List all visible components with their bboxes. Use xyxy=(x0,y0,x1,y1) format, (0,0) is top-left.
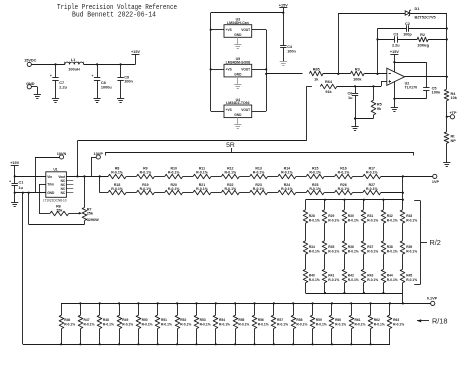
resistor R64 xyxy=(320,84,337,89)
svg-text:R-0.1%: R-0.1% xyxy=(393,322,404,326)
resistor R62 xyxy=(370,303,372,315)
svg-text:R-0.1%: R-0.1% xyxy=(140,187,153,191)
wire xyxy=(211,111,224,113)
wire xyxy=(239,192,249,194)
svg-text:R-0.1%: R-0.1% xyxy=(328,278,339,282)
resistor R37 xyxy=(361,241,366,254)
wire vout bus xyxy=(66,176,108,178)
capacitor C6 xyxy=(355,86,357,93)
resistor R22 xyxy=(221,190,239,195)
capacitor C1 xyxy=(14,176,16,183)
svg-text:1u: 1u xyxy=(19,186,24,190)
resistor R14 xyxy=(278,174,296,179)
svg-text:75k: 75k xyxy=(56,209,63,213)
svg-text:Bud Bennett 2022-06-14: Bud Bennett 2022-06-14 xyxy=(72,11,156,19)
resistor R34 xyxy=(303,241,308,254)
svg-text:LM34DH-Can: LM34DH-Can xyxy=(227,21,249,25)
resistor R26 xyxy=(335,190,353,195)
svg-text:100k: 100k xyxy=(353,78,362,82)
wire xyxy=(394,98,426,100)
svg-text:R-0.1%: R-0.1% xyxy=(281,171,294,175)
svg-text:R-0.1%: R-0.1% xyxy=(309,278,320,282)
wire xyxy=(31,64,65,66)
ground xyxy=(443,162,450,164)
op-amp U2 xyxy=(387,68,405,85)
ground xyxy=(237,77,239,84)
resistor R45 xyxy=(400,269,405,282)
wire xyxy=(183,192,193,194)
wire xyxy=(383,223,385,241)
wire xyxy=(383,283,385,293)
svg-text:100n: 100n xyxy=(287,50,296,54)
svg-text:+TP: +TP xyxy=(449,111,457,115)
ground xyxy=(11,202,18,204)
wire xyxy=(363,200,365,210)
wire xyxy=(324,283,326,293)
wire xyxy=(252,69,267,71)
svg-text:R2: R2 xyxy=(420,33,425,37)
resistor R21 xyxy=(193,190,211,195)
svg-text:R-0.1%: R-0.1% xyxy=(224,187,237,191)
wire xyxy=(353,192,363,194)
wire xyxy=(324,254,326,269)
resistor R55 xyxy=(235,303,237,315)
wire xyxy=(126,176,136,178)
resistor R23 xyxy=(250,190,268,195)
wire xyxy=(383,200,385,210)
svg-text:R-0.1%: R-0.1% xyxy=(122,322,133,326)
wire xyxy=(381,192,403,194)
svg-text:GND: GND xyxy=(234,73,242,77)
resistor R56 xyxy=(254,303,256,315)
svg-text:25k: 25k xyxy=(87,212,94,216)
wire xyxy=(211,176,221,178)
wire xyxy=(337,86,381,88)
wire xyxy=(446,143,448,162)
wire xyxy=(268,176,278,178)
voltage reference U3 xyxy=(224,25,252,38)
svg-text:BZT52C7V5: BZT52C7V5 xyxy=(415,15,436,19)
wire xyxy=(84,64,136,66)
svg-text:R-0.1%: R-0.1% xyxy=(200,322,211,326)
resistor R53 xyxy=(196,303,198,315)
svg-text:2.2u: 2.2u xyxy=(392,43,400,47)
svg-text:R-0.1%: R-0.1% xyxy=(366,171,379,175)
resistor R20 xyxy=(165,190,183,195)
resistor R10 xyxy=(165,174,183,179)
resistor R43 xyxy=(361,269,366,282)
svg-text:R-0.1%: R-0.1% xyxy=(103,322,114,326)
svg-text:R-0.1%: R-0.1% xyxy=(367,278,378,282)
wire xyxy=(338,13,405,15)
wire xyxy=(383,254,385,269)
svg-text:LM34DM-SO08: LM34DM-SO08 xyxy=(226,61,251,65)
resistor R3 xyxy=(351,71,365,76)
svg-text:+15V: +15V xyxy=(279,3,288,7)
port 1VP xyxy=(403,176,433,178)
svg-text:C3: C3 xyxy=(393,33,398,37)
wire xyxy=(402,223,404,241)
svg-text:+: + xyxy=(92,74,94,78)
wire xyxy=(377,29,379,74)
zener diode D1 xyxy=(405,11,409,15)
wire xyxy=(296,192,306,194)
resistor R42 xyxy=(342,269,347,282)
svg-text:R65: R65 xyxy=(313,67,320,71)
wire xyxy=(305,283,307,293)
wire xyxy=(363,254,365,269)
svg-text:R-0.1%: R-0.1% xyxy=(309,218,320,222)
resistor R51 xyxy=(157,303,159,315)
svg-text:R-0.1%: R-0.1% xyxy=(406,218,417,222)
resistor R49 xyxy=(119,303,121,315)
resistor R28 xyxy=(303,210,308,223)
wire xyxy=(296,176,306,178)
wire trim xyxy=(39,184,46,186)
svg-text:R/2: R/2 xyxy=(430,238,441,247)
svg-text:R/18: R/18 xyxy=(432,316,447,325)
svg-text:R-0.1%: R-0.1% xyxy=(296,322,307,326)
svg-text:R64: R64 xyxy=(325,80,333,84)
svg-text:R-0.1%: R-0.1% xyxy=(387,218,398,222)
wire xyxy=(266,73,302,75)
resistor R63 xyxy=(389,303,391,315)
wire xyxy=(394,81,396,107)
svg-text:R-0.1%: R-0.1% xyxy=(253,187,266,191)
svg-text:Trim: Trim xyxy=(47,182,54,186)
svg-text:GND: GND xyxy=(47,191,55,195)
resistor R15 xyxy=(306,174,324,179)
ground xyxy=(351,126,358,128)
resistor R58 xyxy=(293,303,295,315)
svg-text:R-0.1%: R-0.1% xyxy=(111,171,124,175)
resistor R24 xyxy=(278,190,296,195)
svg-text:+VS: +VS xyxy=(226,68,232,72)
wire out xyxy=(405,76,447,78)
svg-text:100n: 100n xyxy=(432,91,441,95)
resistor Rt xyxy=(444,132,449,143)
svg-text:LT1021DCN8-10: LT1021DCN8-10 xyxy=(43,198,67,202)
svg-text:100uH: 100uH xyxy=(68,67,80,71)
resistor R11 xyxy=(193,174,211,179)
ground xyxy=(237,37,239,45)
resistor R6 xyxy=(50,211,69,216)
wire xyxy=(402,293,404,303)
resistor R12 xyxy=(221,174,239,179)
svg-text:Vin: Vin xyxy=(47,175,52,179)
resistor R13 xyxy=(250,174,268,179)
svg-text:R-0.1%: R-0.1% xyxy=(328,249,339,253)
svg-text:C1: C1 xyxy=(19,180,24,184)
svg-text:0.1VP: 0.1VP xyxy=(427,296,438,300)
svg-text:R-0.1%: R-0.1% xyxy=(219,322,230,326)
ground xyxy=(117,98,124,100)
label R/18 xyxy=(417,320,429,322)
wire gnd rail xyxy=(15,192,46,194)
svg-text:R-0.1%: R-0.1% xyxy=(140,171,153,175)
port +TP xyxy=(446,116,448,118)
svg-text:+15V: +15V xyxy=(131,50,140,54)
wire xyxy=(69,213,80,215)
svg-text:R-0.1%: R-0.1% xyxy=(309,187,322,191)
ground xyxy=(94,98,101,100)
wire xyxy=(154,192,164,194)
resistor R59 xyxy=(312,303,314,315)
wire xyxy=(266,30,268,111)
resistor R8 xyxy=(108,174,126,179)
svg-text:R-0.1%: R-0.1% xyxy=(196,187,209,191)
wire xyxy=(211,192,221,194)
svg-text:10Meg: 10Meg xyxy=(417,43,429,47)
resistor R19 xyxy=(136,190,154,195)
resistor R18 xyxy=(108,190,126,195)
resistor R5 xyxy=(373,86,375,100)
wire xyxy=(363,283,365,293)
resistor R2 xyxy=(417,37,428,42)
wire xyxy=(344,200,346,210)
wire xyxy=(363,223,365,241)
voltage reference U4 xyxy=(224,105,252,118)
svg-text:R-0.1%: R-0.1% xyxy=(224,171,237,175)
resistor R52 xyxy=(177,303,179,315)
power +15V xyxy=(135,54,137,64)
svg-text:R-0.1%: R-0.1% xyxy=(168,171,181,175)
wire left rail xyxy=(22,193,24,345)
wire xyxy=(324,176,334,178)
wire xyxy=(402,283,404,293)
svg-text:C2: C2 xyxy=(405,22,410,26)
wire xyxy=(446,13,448,89)
wire xyxy=(183,176,193,178)
svg-text:+15V: +15V xyxy=(10,161,19,165)
resistor R48 xyxy=(99,303,101,315)
svg-text:R-0.1%: R-0.1% xyxy=(406,278,417,282)
svg-text:91k: 91k xyxy=(325,90,332,94)
resistor R4 xyxy=(444,89,449,100)
svg-text:LM34DZ-TO92: LM34DZ-TO92 xyxy=(226,101,250,105)
wire +15V rail xyxy=(211,12,284,14)
svg-text:R-0.1%: R-0.1% xyxy=(374,322,385,326)
wire xyxy=(15,176,46,178)
svg-text:1u: 1u xyxy=(348,96,353,100)
wire xyxy=(239,176,249,178)
wire xyxy=(410,13,447,15)
wire xyxy=(324,200,326,210)
svg-text:R-0.1%: R-0.1% xyxy=(238,322,249,326)
resistor R17 xyxy=(363,174,381,179)
svg-text:R-0.1%: R-0.1% xyxy=(406,249,417,253)
capacitor C5 xyxy=(426,62,428,88)
wire xyxy=(446,101,448,132)
svg-text:R-0.1%: R-0.1% xyxy=(142,322,153,326)
resistor R36 xyxy=(342,241,347,254)
svg-text:VOUT: VOUT xyxy=(241,28,250,32)
ground xyxy=(52,98,59,100)
svg-text:R-0.1%: R-0.1% xyxy=(277,322,288,326)
wire xyxy=(397,39,417,41)
svg-text:R-0.1%: R-0.1% xyxy=(335,322,346,326)
svg-text:R-0.1%: R-0.1% xyxy=(367,249,378,253)
svg-text:R-0.1%: R-0.1% xyxy=(168,187,181,191)
svg-text:+: + xyxy=(50,74,52,78)
svg-text:15VDC: 15VDC xyxy=(24,58,36,62)
svg-text:R-0.1%: R-0.1% xyxy=(309,171,322,175)
svg-text:5R: 5R xyxy=(226,142,235,149)
wire xyxy=(381,176,403,178)
resistor R9 xyxy=(136,174,154,179)
resistor R57 xyxy=(273,303,275,315)
resistor R47 xyxy=(80,303,82,315)
svg-text:R-0.1%: R-0.1% xyxy=(367,218,378,222)
svg-text:3296W: 3296W xyxy=(87,218,99,222)
svg-text:R-0.1%: R-0.1% xyxy=(196,171,209,175)
node gnd xyxy=(14,192,16,194)
ground xyxy=(391,107,398,109)
resistor R30 xyxy=(342,210,347,223)
ground xyxy=(237,118,239,125)
resistor R35 xyxy=(322,241,327,254)
wire xyxy=(211,69,224,71)
svg-text:R-0.1%: R-0.1% xyxy=(348,218,359,222)
port 0.1VP xyxy=(403,303,431,305)
wire xyxy=(324,223,326,241)
resistor R44 xyxy=(381,269,386,282)
resistor R60 xyxy=(331,303,333,315)
svg-text:R-0.1%: R-0.1% xyxy=(348,278,359,282)
wire xyxy=(428,39,447,41)
svg-text:NC: NC xyxy=(61,191,66,195)
svg-text:1000u: 1000u xyxy=(101,85,112,89)
wire pot return xyxy=(29,224,85,226)
resistor R61 xyxy=(351,303,353,315)
svg-text:R-0.1%: R-0.1% xyxy=(111,187,124,191)
resistor R31 xyxy=(361,210,366,223)
svg-text:VOUT: VOUT xyxy=(241,68,250,72)
svg-text:+VS: +VS xyxy=(226,108,232,112)
resistor R41 xyxy=(322,269,327,282)
resistor R46 xyxy=(61,303,63,315)
svg-text:R-0.1%: R-0.1% xyxy=(161,322,172,326)
svg-text:L1: L1 xyxy=(71,58,75,62)
wire sense xyxy=(77,141,79,177)
ground xyxy=(34,94,41,96)
wire xyxy=(338,13,340,74)
wire xyxy=(353,176,363,178)
svg-text:R-0.1%: R-0.1% xyxy=(354,322,365,326)
voltage reference U1 xyxy=(46,172,67,198)
node 1VP xyxy=(402,175,404,177)
svg-text:100p: 100p xyxy=(403,32,412,36)
svg-text:+VS: +VS xyxy=(226,28,232,32)
svg-text:R-0.1%: R-0.1% xyxy=(366,187,379,191)
wire xyxy=(402,200,404,210)
svg-text:10k: 10k xyxy=(451,96,458,100)
inductor L1 xyxy=(65,62,84,64)
svg-text:R-0.1%: R-0.1% xyxy=(84,322,95,326)
wire xyxy=(154,176,164,178)
wire R/18 bottom rail xyxy=(23,344,390,346)
resistor R33 xyxy=(400,210,405,223)
resistor R25 xyxy=(306,190,324,195)
wire xyxy=(402,176,404,199)
ground xyxy=(280,61,287,63)
wire xyxy=(402,254,404,269)
resistor R27 xyxy=(363,190,381,195)
resistor R29 xyxy=(322,210,327,223)
wire xyxy=(305,200,307,210)
node xyxy=(354,117,356,119)
wire xyxy=(344,223,346,241)
wire xyxy=(211,29,224,31)
svg-text:R-0.1%: R-0.1% xyxy=(338,187,351,191)
capacitor C3 xyxy=(378,39,395,41)
svg-text:R-0.1%: R-0.1% xyxy=(180,322,191,326)
wire xyxy=(252,29,267,31)
wire xyxy=(394,62,426,64)
resistor R65 xyxy=(309,71,323,76)
svg-text:R-0.1%: R-0.1% xyxy=(338,171,351,175)
svg-text:NP: NP xyxy=(451,139,457,143)
wire xyxy=(323,73,351,75)
wire xyxy=(268,192,278,194)
node VSUM xyxy=(265,73,267,75)
svg-text:R-0.1%: R-0.1% xyxy=(387,249,398,253)
svg-text:2.2u: 2.2u xyxy=(59,85,67,89)
capacitor C4 xyxy=(283,13,285,46)
wire xyxy=(305,254,307,269)
bracket R/2 xyxy=(420,201,422,284)
capacitor C2 xyxy=(378,28,407,30)
resistor R16 xyxy=(335,174,353,179)
potentiometer R7 xyxy=(84,176,86,207)
svg-text:R3: R3 xyxy=(355,67,360,71)
resistor R40 xyxy=(303,269,308,282)
svg-text:GND: GND xyxy=(234,113,242,117)
svg-text:R-0.1%: R-0.1% xyxy=(258,322,269,326)
svg-text:R-0.1%: R-0.1% xyxy=(309,249,320,253)
svg-text:R-0.1%: R-0.1% xyxy=(281,187,294,191)
capacitor C8 xyxy=(96,63,98,65)
wire xyxy=(364,73,387,75)
resistor R32 xyxy=(381,210,386,223)
svg-text:VOUT: VOUT xyxy=(241,108,250,112)
svg-text:R-0.1%: R-0.1% xyxy=(328,218,339,222)
svg-text:R-0.1%: R-0.1% xyxy=(253,171,266,175)
svg-text:D1: D1 xyxy=(415,7,420,11)
wire R/2 bottom rail xyxy=(306,293,403,295)
svg-text:R-0.1%: R-0.1% xyxy=(348,249,359,253)
capacitor C9 xyxy=(120,63,122,65)
resistor R54 xyxy=(215,303,217,315)
wire xyxy=(344,283,346,293)
wire xyxy=(305,223,307,241)
wire xyxy=(324,192,334,194)
wire R/2 top rail xyxy=(306,199,403,201)
voltage reference U5 xyxy=(224,64,252,77)
wire xyxy=(126,192,136,194)
resistor R39 xyxy=(400,241,405,254)
capacitor C7 xyxy=(54,63,56,65)
svg-text:R-0.1%: R-0.1% xyxy=(316,322,327,326)
svg-text:100n: 100n xyxy=(124,80,133,84)
svg-text:U1: U1 xyxy=(53,168,57,172)
svg-text:TLV170: TLV170 xyxy=(405,85,418,89)
svg-text:R-0.1%: R-0.1% xyxy=(64,322,75,326)
wire R/18 top rail xyxy=(61,303,403,305)
wire xyxy=(252,111,267,113)
svg-text:1VP: 1VP xyxy=(432,180,440,184)
resistor R38 xyxy=(381,241,386,254)
